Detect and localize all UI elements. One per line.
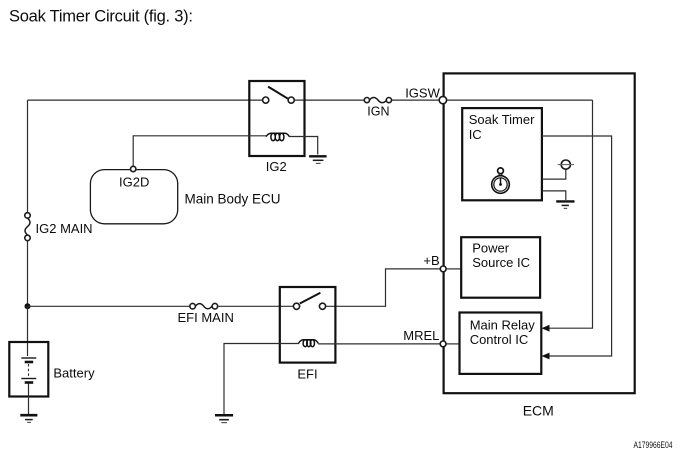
battery — [9, 342, 48, 414]
svg-text:+B: +B — [423, 253, 439, 268]
Soak Timer IC box — [462, 108, 542, 200]
wire: EFI switch out, riser to +B — [326, 269, 441, 306]
svg-text:IG2D: IG2D — [119, 175, 149, 190]
ground right of Soak Timer IC — [556, 201, 574, 208]
svg-text:IC: IC — [469, 127, 482, 142]
node MREL — [440, 341, 446, 347]
wire: EFI MAIN fuse to EFI relay switch — [218, 305, 293, 307]
svg-text:MREL: MREL — [403, 328, 439, 343]
wire: EFI coil left to ground — [224, 344, 299, 415]
arrowhead 2 — [542, 353, 550, 360]
wire: battery row to EFI MAIN fuse — [28, 305, 192, 307]
coil — [299, 340, 319, 347]
wire: IG2D node up and right to IG2 coil — [133, 136, 266, 167]
wire: IGSW riser to Main Relay Control IC (arrow) — [548, 100, 593, 328]
svg-text:Power: Power — [472, 241, 510, 256]
ground below EFI coil wire — [215, 415, 233, 422]
svg-text:ECM: ECM — [523, 402, 554, 418]
svg-text:Soak Timer: Soak Timer — [469, 112, 535, 127]
Power Source IC box — [461, 237, 540, 298]
svg-text:IG2: IG2 — [266, 159, 287, 174]
svg-text:Source IC: Source IC — [472, 255, 530, 270]
ground below battery — [20, 415, 37, 422]
node +B — [440, 266, 446, 272]
svg-text:Main Body ECU: Main Body ECU — [185, 192, 281, 207]
svg-text:IGSW: IGSW — [405, 85, 440, 100]
coil — [266, 133, 290, 141]
Main Body ECU rounded box — [90, 170, 177, 224]
svg-text:IGN: IGN — [367, 105, 389, 119]
relay EFI — [280, 287, 336, 363]
stopwatch icon — [492, 168, 510, 193]
wire: soak timer to ground — [542, 191, 566, 200]
svg-text:A179966E04: A179966E04 — [634, 440, 673, 450]
wire: IG2 switch to IGN fuse — [294, 99, 364, 101]
wire: junction down into battery — [27, 306, 29, 356]
switch blade — [268, 87, 288, 99]
svg-text:IG2 MAIN: IG2 MAIN — [36, 221, 93, 236]
svg-text:Main Relay: Main Relay — [470, 317, 536, 332]
arrowhead 1 — [542, 325, 550, 332]
node IG2D — [131, 166, 136, 171]
svg-text:Control IC: Control IC — [470, 332, 529, 347]
wire: +B node into Power Source IC — [446, 268, 461, 270]
node junction dot — [25, 303, 31, 309]
wire: left vertical upper (to IG2 MAIN fuse) — [27, 100, 29, 212]
ECM box — [444, 73, 635, 393]
switch blade — [300, 293, 321, 304]
relay IG2 — [249, 81, 304, 156]
wire: IG2 coil right to ground — [289, 137, 318, 155]
ground right of IG2 — [309, 156, 327, 163]
svg-text:EFI: EFI — [297, 367, 317, 382]
wire: MREL node into Main Relay Control IC — [446, 343, 459, 345]
wire: soak timer to oscillator circle — [542, 169, 566, 179]
wire: IGSW node to internal riser — [447, 99, 593, 101]
svg-text:Battery: Battery — [53, 366, 95, 381]
wire: top horizontal battery feed to IG2 switch — [28, 99, 263, 101]
svg-text:Soak Timer Circuit (fig. 3):: Soak Timer Circuit (fig. 3): — [9, 7, 193, 25]
wire: EFI coil right to MREL node — [318, 343, 440, 345]
oscillator circle — [558, 160, 574, 169]
svg-text:EFI MAIN: EFI MAIN — [178, 310, 234, 325]
fuse IGN — [364, 98, 391, 103]
wire: Soak Timer output riser to Main Relay Control IC (arrow) — [542, 136, 612, 356]
Main Relay Control IC box — [460, 313, 542, 374]
node IGSW — [439, 96, 446, 103]
wire: IGN fuse to IGSW node — [391, 99, 439, 101]
fuse IG2 MAIN — [25, 213, 31, 241]
fuse EFI MAIN — [190, 303, 218, 309]
wire: left vertical lower (fuse to junction to battery) — [27, 241, 29, 307]
